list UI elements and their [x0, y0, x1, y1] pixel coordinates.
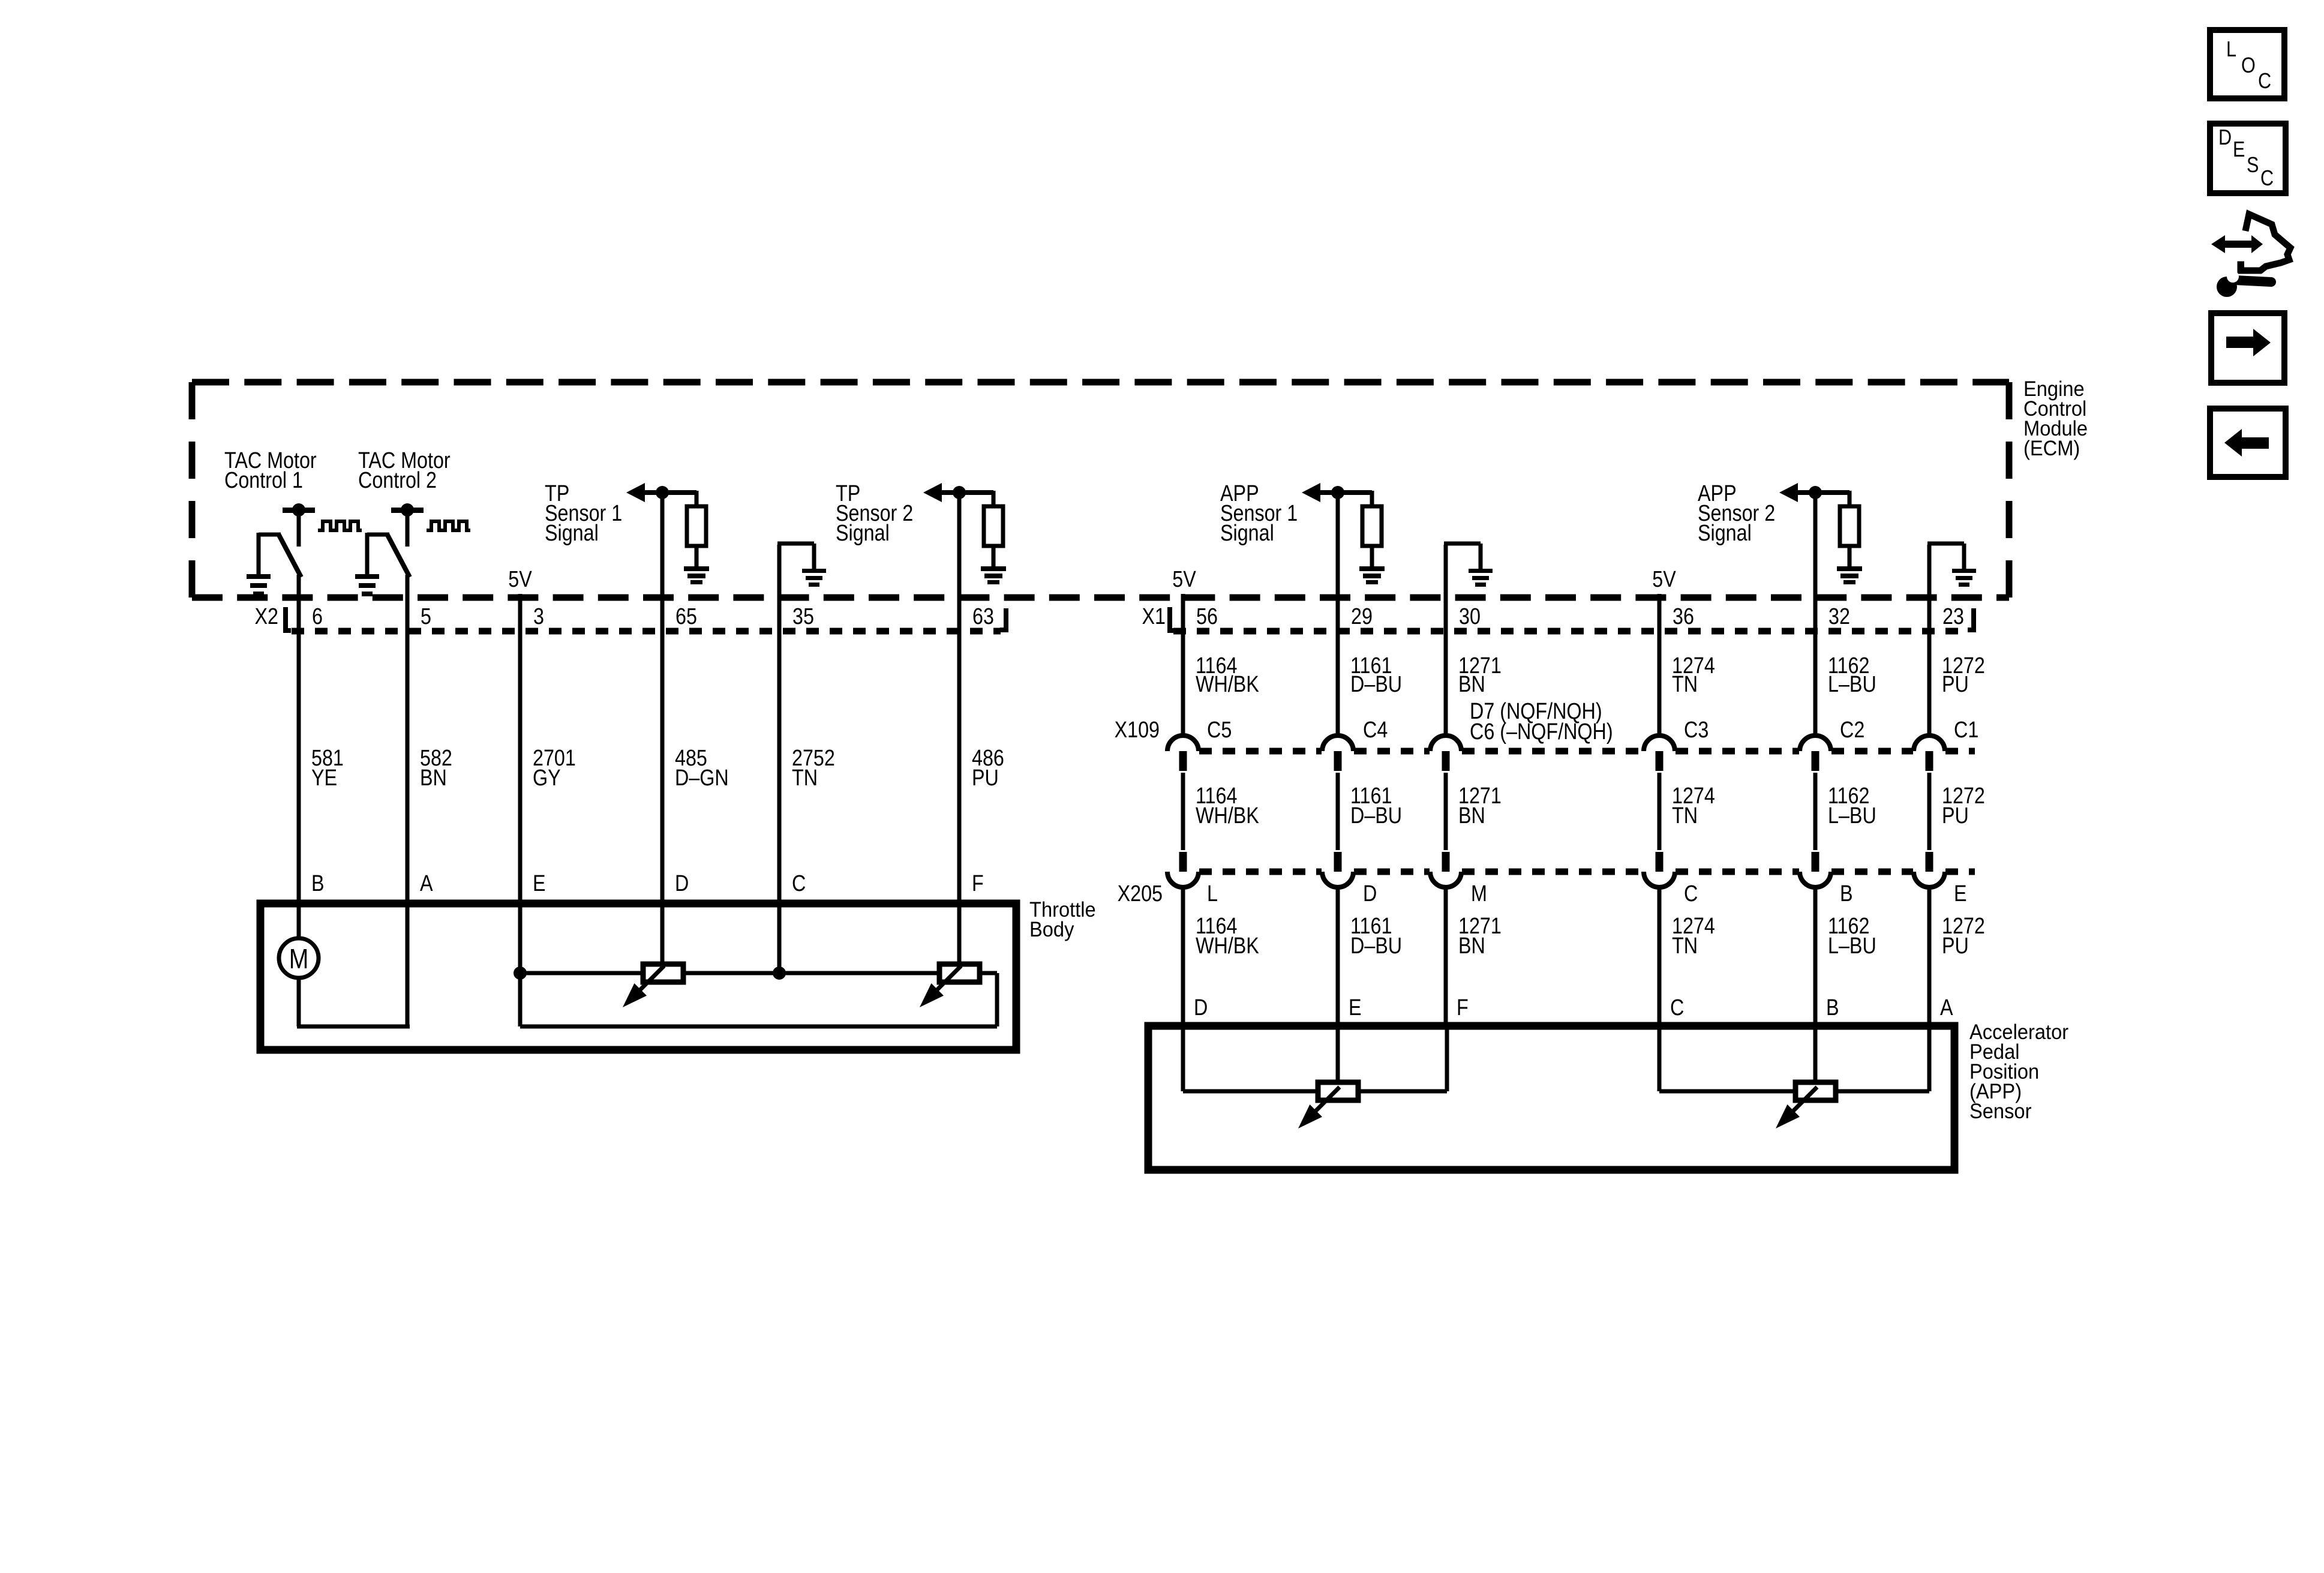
svg-text:(ECM): (ECM) — [2023, 437, 2080, 461]
svg-text:E: E — [2233, 138, 2245, 162]
svg-text:TN: TN — [1672, 803, 1698, 828]
svg-text:C: C — [792, 871, 806, 896]
svg-text:23: 23 — [1942, 604, 1964, 629]
svg-text:B: B — [1826, 995, 1839, 1020]
svg-text:TN: TN — [792, 766, 818, 791]
svg-text:B: B — [311, 871, 325, 896]
svg-text:6: 6 — [312, 604, 323, 629]
svg-text:WH/BK: WH/BK — [1196, 803, 1259, 828]
svg-text:E: E — [1349, 995, 1362, 1020]
svg-text:C3: C3 — [1684, 718, 1709, 743]
svg-text:A: A — [1940, 995, 1953, 1020]
svg-text:WH/BK: WH/BK — [1196, 933, 1259, 959]
svg-text:X1: X1 — [1142, 604, 1166, 629]
svg-text:Body: Body — [1029, 918, 1074, 942]
svg-text:WH/BK: WH/BK — [1196, 672, 1259, 697]
svg-text:D: D — [2218, 126, 2232, 150]
svg-text:56: 56 — [1196, 604, 1218, 629]
svg-text:5V: 5V — [1652, 567, 1676, 592]
svg-text:C: C — [1684, 881, 1698, 906]
svg-text:L: L — [2226, 38, 2236, 62]
svg-text:C: C — [2258, 70, 2271, 94]
svg-text:L: L — [1207, 881, 1218, 906]
svg-text:X109: X109 — [1115, 718, 1160, 743]
svg-text:Sensor: Sensor — [1969, 1100, 2031, 1124]
svg-text:5V: 5V — [508, 567, 532, 592]
svg-text:E: E — [533, 871, 546, 896]
svg-text:BN: BN — [1458, 672, 1485, 697]
svg-text:D–GN: D–GN — [675, 766, 729, 791]
svg-text:Control 1: Control 1 — [224, 468, 303, 493]
svg-text:D: D — [675, 871, 689, 896]
svg-text:C4: C4 — [1363, 718, 1388, 743]
svg-text:S: S — [2247, 154, 2259, 178]
svg-text:29: 29 — [1351, 604, 1373, 629]
svg-text:Signal: Signal — [1220, 521, 1274, 546]
svg-text:Signal: Signal — [1698, 521, 1752, 546]
svg-text:PU: PU — [1942, 933, 1969, 959]
svg-text:BN: BN — [1458, 933, 1485, 959]
svg-text:A: A — [420, 871, 433, 896]
svg-text:D: D — [1363, 881, 1377, 906]
svg-text:F: F — [1457, 995, 1469, 1020]
svg-text:5V: 5V — [1172, 567, 1196, 592]
svg-text:5: 5 — [421, 604, 431, 629]
svg-text:PU: PU — [972, 766, 999, 791]
svg-text:Control 2: Control 2 — [358, 468, 437, 493]
svg-text:M: M — [1471, 881, 1487, 906]
svg-text:B: B — [1840, 881, 1853, 906]
svg-text:C: C — [1670, 995, 1684, 1020]
svg-text:63: 63 — [972, 604, 994, 629]
svg-text:YE: YE — [311, 766, 337, 791]
svg-text:E: E — [1954, 881, 1967, 906]
svg-text:TN: TN — [1672, 672, 1698, 697]
svg-text:36: 36 — [1673, 604, 1694, 629]
svg-text:L–BU: L–BU — [1828, 803, 1876, 828]
svg-text:C1: C1 — [1954, 718, 1978, 743]
svg-text:M: M — [289, 944, 309, 975]
svg-text:Signal: Signal — [545, 521, 599, 546]
svg-text:C5: C5 — [1207, 718, 1232, 743]
svg-text:C6 (–NQF/NQH): C6 (–NQF/NQH) — [1470, 719, 1613, 745]
svg-text:32: 32 — [1828, 604, 1850, 629]
svg-text:D–BU: D–BU — [1350, 672, 1402, 697]
svg-text:D: D — [1194, 995, 1208, 1020]
svg-text:BN: BN — [420, 766, 447, 791]
svg-text:65: 65 — [675, 604, 697, 629]
svg-text:C: C — [2260, 167, 2274, 191]
svg-text:O: O — [2241, 54, 2256, 78]
svg-text:D–BU: D–BU — [1350, 803, 1402, 828]
svg-text:L–BU: L–BU — [1828, 672, 1876, 697]
svg-text:30: 30 — [1459, 604, 1481, 629]
svg-text:GY: GY — [533, 766, 561, 791]
svg-text:3: 3 — [533, 604, 544, 629]
svg-text:PU: PU — [1942, 672, 1969, 697]
svg-text:TN: TN — [1672, 933, 1698, 959]
svg-text:D–BU: D–BU — [1350, 933, 1402, 959]
svg-text:F: F — [972, 871, 984, 896]
svg-text:L–BU: L–BU — [1828, 933, 1876, 959]
svg-text:35: 35 — [792, 604, 814, 629]
svg-text:X2: X2 — [255, 604, 278, 629]
svg-text:BN: BN — [1458, 803, 1485, 828]
svg-text:X205: X205 — [1118, 881, 1163, 906]
svg-text:C2: C2 — [1840, 718, 1864, 743]
svg-text:PU: PU — [1942, 803, 1969, 828]
svg-text:Signal: Signal — [836, 521, 890, 546]
